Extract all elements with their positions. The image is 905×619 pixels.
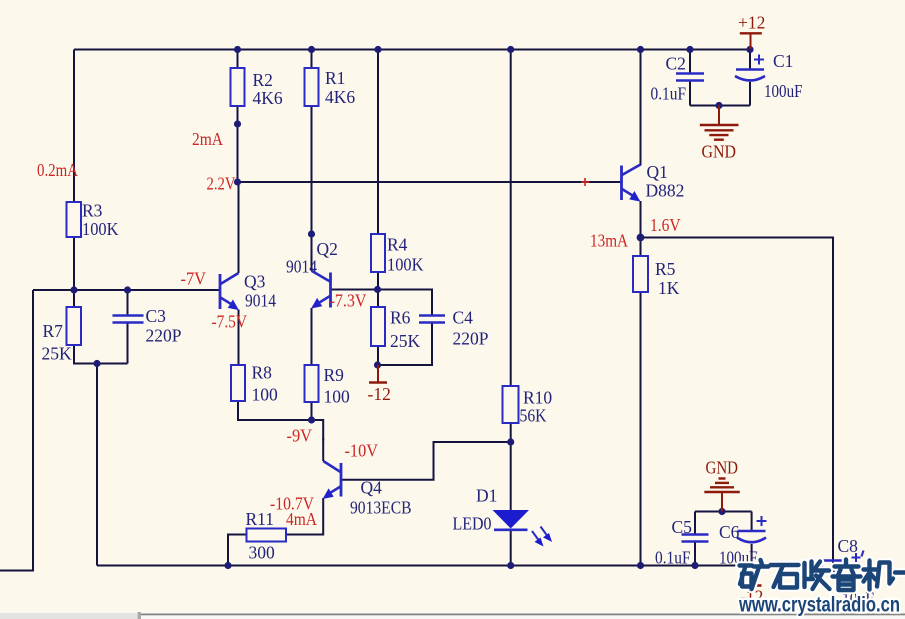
- svg-text:0.2mA: 0.2mA: [37, 160, 78, 180]
- wire -9V node to Q4 collector: [312, 420, 324, 441]
- label C8 value: [838, 536, 875, 609]
- capacitor C6 polarized: [737, 516, 767, 542]
- svg-text:www.crystalradio.cn: www.crystalradio.cn: [738, 594, 900, 617]
- svg-text:4mA: 4mA: [286, 509, 317, 529]
- svg-text:R6: R6: [390, 308, 411, 328]
- svg-text:C8: C8: [838, 536, 859, 556]
- wire input net horizontal to Q3 base: [33, 289, 219, 291]
- wire C3 top stub: [127, 290, 129, 315]
- wire C1 top stub: [749, 50, 751, 70]
- diode D1 LED: [493, 510, 553, 547]
- wire R2 top stub: [237, 50, 239, 69]
- wire R8 bottom to -9V node: [238, 401, 312, 420]
- wire R6 bottom to -12 node: [377, 346, 379, 365]
- junction dots top rail: [234, 46, 241, 53]
- resistor R11: [247, 529, 287, 542]
- wire R3 bottom to input node: [73, 237, 75, 290]
- svg-text:25K: 25K: [390, 331, 421, 351]
- svg-text:2.2V: 2.2V: [207, 174, 236, 194]
- svg-text:D882: D882: [646, 181, 685, 201]
- label R7 value: [42, 321, 73, 364]
- node input C3: [124, 286, 131, 293]
- wire R2 bottom through 2mA node down to Q3 collector: [237, 106, 239, 182]
- svg-text:0.1uF: 0.1uF: [655, 548, 691, 568]
- capacitor C1 polarized: [735, 55, 765, 81]
- wire top +12 rail: [74, 49, 750, 51]
- svg-text:9014: 9014: [245, 291, 276, 311]
- svg-text:100: 100: [252, 385, 279, 405]
- wire R1 top stub: [311, 50, 313, 69]
- label D1 name: [453, 486, 498, 534]
- BOTTOMSTRIP: [0, 612, 905, 619]
- svg-text:Q2: Q2: [317, 239, 338, 259]
- ground GND bottom symbol (flipped): [704, 479, 740, 512]
- node input R3: [70, 286, 77, 293]
- wire R4 bottom to node: [377, 272, 379, 290]
- label R4 value: [387, 235, 424, 275]
- label R2 value: [253, 70, 283, 108]
- node bottom rail C5: [691, 562, 698, 569]
- ground GND top symbol: [700, 106, 739, 140]
- wire C5/C6 top bus: [695, 511, 752, 513]
- node R6/C4/-12: [374, 361, 381, 368]
- wire R10 bottom to node: [510, 423, 512, 442]
- svg-text:4K6: 4K6: [325, 87, 355, 107]
- wire C2 top stub: [689, 50, 691, 74]
- transistor Q4: [323, 461, 341, 499]
- resistor R2: [231, 68, 245, 106]
- svg-text:300: 300: [249, 543, 276, 563]
- transistor Q1: [622, 165, 641, 202]
- power +12 bar: [740, 33, 762, 49]
- svg-text:25K: 25K: [42, 344, 73, 364]
- node -9V: [308, 416, 315, 423]
- svg-text:9013ECB: 9013ECB: [350, 498, 412, 518]
- node 1.6V: [637, 234, 645, 242]
- svg-text:GND: GND: [706, 458, 739, 478]
- svg-text:C1: C1: [773, 51, 793, 71]
- wire C5 top stub: [694, 512, 696, 535]
- node Q2 collector: [308, 230, 315, 237]
- wire Q4 collector vertical: [322, 438, 324, 461]
- wire C6 top stub: [751, 512, 753, 532]
- svg-text:GND: GND: [702, 142, 737, 162]
- svg-text:R1: R1: [325, 68, 345, 88]
- resistor R6: [371, 307, 385, 346]
- svg-text:100K: 100K: [82, 219, 119, 239]
- wire Q3 emitter to R8: [238, 310, 240, 366]
- resistor R4: [371, 234, 385, 272]
- power -12 bar bottom right: [742, 566, 762, 586]
- wire C3 bottom stub: [127, 323, 129, 364]
- svg-text:4K6: 4K6: [253, 88, 283, 108]
- svg-text:Q1: Q1: [647, 162, 668, 182]
- node 2.2V: [234, 178, 241, 185]
- svg-text:1.6V: 1.6V: [650, 215, 681, 235]
- label C1 value: [764, 51, 803, 101]
- label C4 value: [453, 308, 489, 349]
- svg-text:-7.5V: -7.5V: [212, 312, 248, 332]
- resistor R9: [305, 365, 319, 402]
- node bottom rail D1: [507, 562, 514, 569]
- node bottom rail R11: [224, 562, 231, 569]
- wire D1 cathode to bottom rail: [510, 530, 512, 566]
- node C5/C6/GND bus: [718, 508, 725, 515]
- node C1/C2/GND bus: [715, 102, 722, 109]
- label C5 value: [655, 517, 692, 568]
- wire R11 left to bottom rail: [228, 535, 247, 566]
- resistor R3: [67, 202, 82, 237]
- label R9 value: [324, 365, 351, 407]
- svg-text:D1: D1: [476, 486, 497, 506]
- label R10 value: [520, 388, 553, 426]
- power -12 bar mid (below R6): [369, 365, 387, 383]
- wire R4 top stub from rail: [377, 50, 379, 235]
- wire C6 bottom stub: [751, 544, 753, 566]
- label R5 value: [655, 259, 680, 298]
- label Q2 name: [286, 239, 338, 277]
- node bottom rail R5: [637, 562, 644, 569]
- label R3 value: [82, 201, 119, 240]
- resistor R10: [503, 386, 519, 423]
- svg-text:-9V: -9V: [287, 426, 313, 446]
- wire C4 bottom branch: [378, 323, 432, 365]
- svg-text:56K: 56K: [520, 406, 547, 426]
- svg-text:0.1uF: 0.1uF: [651, 84, 687, 104]
- svg-text:Q3: Q3: [244, 272, 266, 292]
- wire 1.6V net right and down right side: [641, 238, 834, 559]
- wire Q2 base to R4/R6 node: [331, 289, 378, 291]
- resistor R5: [633, 256, 648, 292]
- transistor Q2: [311, 271, 330, 309]
- svg-text:100uF: 100uF: [764, 81, 803, 101]
- label R8 value: [252, 363, 279, 405]
- wire R5 top stub: [640, 238, 642, 257]
- resistor R1: [305, 68, 319, 106]
- label C3 value: [146, 306, 182, 346]
- svg-text:R8: R8: [252, 363, 273, 383]
- capacitor C2: [676, 74, 704, 81]
- svg-text:1K: 1K: [658, 278, 680, 298]
- wire C8 bottom to right edge: [832, 558, 834, 563]
- node R4/R6: [374, 286, 381, 293]
- wire bottom rail: [97, 565, 752, 567]
- svg-text:220P: 220P: [453, 329, 489, 349]
- resistor R7: [67, 307, 82, 345]
- resistor R8: [231, 365, 245, 401]
- svg-text:13mA: 13mA: [590, 231, 628, 251]
- svg-text:+12: +12: [738, 13, 765, 33]
- svg-text:9014: 9014: [286, 257, 317, 277]
- capacitor C5: [682, 535, 709, 542]
- wire left vertical from rail to R3: [73, 50, 75, 203]
- svg-text:-12: -12: [368, 384, 391, 404]
- label C2 value: [651, 54, 687, 104]
- wire C5 bottom stub: [694, 542, 696, 566]
- svg-text:-7.3V: -7.3V: [330, 291, 367, 311]
- wire 2.2V node down to Q3 collector: [238, 182, 240, 273]
- wire Q1 collector from rail: [640, 50, 642, 166]
- wire R7 top stub: [73, 290, 75, 307]
- svg-text:R9: R9: [324, 365, 345, 385]
- svg-text:R3: R3: [82, 201, 103, 221]
- node probe cross on 2.2V line: [581, 178, 589, 186]
- svg-text:C5: C5: [672, 517, 693, 537]
- wire C4 branch top: [378, 290, 433, 316]
- label C6 value: [719, 522, 758, 568]
- svg-text:100: 100: [324, 387, 351, 407]
- wire R1 bottom to Q2 collector: [311, 106, 313, 271]
- capacitor C8 polarized: [821, 551, 864, 571]
- wire R5 bottom to bottom rail: [640, 292, 642, 566]
- svg-text:-7V: -7V: [181, 269, 207, 289]
- svg-text:C2: C2: [666, 54, 686, 74]
- wire Q4 emitter down to R11: [286, 498, 323, 535]
- transistor Q3: [220, 273, 239, 310]
- capacitor C3: [113, 316, 144, 323]
- node R10/D1/Q4 base: [507, 438, 514, 445]
- svg-text:R2: R2: [253, 70, 273, 90]
- label Q3 name: [244, 272, 276, 311]
- label Q4 name: [350, 478, 412, 518]
- wire R9 bottom to -9V node: [311, 402, 313, 420]
- label R1 value: [325, 68, 355, 107]
- svg-text:220P: 220P: [146, 326, 182, 346]
- wire node to R6 top: [377, 290, 379, 308]
- svg-text:R5: R5: [655, 259, 676, 279]
- node R7/C3 bottom: [93, 360, 100, 367]
- wire node to bottom rail vertical x97: [96, 364, 98, 566]
- label R11 value: [246, 509, 276, 563]
- svg-text:R7: R7: [43, 321, 64, 341]
- svg-text:R10: R10: [523, 388, 552, 408]
- svg-text:C6: C6: [719, 522, 740, 542]
- wire node to D1 anode: [510, 442, 512, 510]
- wire C2 bottom stub: [689, 81, 691, 106]
- wire Q1 emitter to 1.6V node: [640, 201, 642, 238]
- wire R7 bottom to C3 bottom: [74, 345, 128, 364]
- wire 2.2V net to Q1 base: [238, 181, 622, 183]
- svg-text:C3: C3: [146, 306, 167, 326]
- svg-text:LED0: LED0: [453, 514, 492, 534]
- svg-text:R4: R4: [387, 235, 408, 255]
- svg-text:Q4: Q4: [361, 478, 383, 498]
- wire R10 top from rail: [510, 50, 512, 387]
- watermark logo 矿石收音机: [740, 560, 905, 591]
- svg-text:-10V: -10V: [345, 441, 379, 461]
- label Q1 name: [646, 162, 685, 201]
- svg-text:2mA: 2mA: [192, 129, 223, 149]
- wire C1 bottom stub: [749, 82, 751, 106]
- label R6 value: [390, 308, 421, 352]
- svg-text:100K: 100K: [387, 255, 424, 275]
- wire Q2 emitter to R9: [311, 308, 313, 365]
- svg-text:C4: C4: [453, 308, 474, 328]
- wire C1/C2 bottom bus: [690, 105, 750, 107]
- wire far-left vertical down: [0, 290, 33, 571]
- node 2mA: [234, 120, 241, 127]
- wire Q4 base to R10/D1 node: [341, 442, 511, 480]
- capacitor C4: [419, 316, 445, 323]
